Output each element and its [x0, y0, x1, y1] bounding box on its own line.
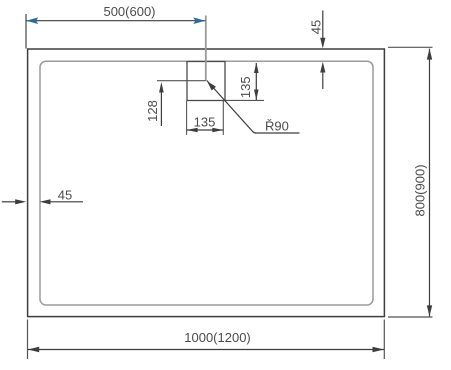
- dimension line 500(600): [26, 20, 206, 22]
- svg-text:Ř90: Ř90: [265, 119, 289, 134]
- svg-text:135: 135: [238, 76, 253, 98]
- blue arrow left of 500(600): [26, 17, 38, 24]
- extension line below drain square left: [186, 101, 188, 135]
- dimension line 135 horizontal: [187, 129, 224, 131]
- left 45 dimension outside segment with right arrow: [2, 201, 17, 203]
- drain centerline vertical (extension of 500 dim): [205, 16, 207, 81]
- extension line bottom left for 1000(1200): [27, 320, 29, 360]
- inner tray rim: [40, 61, 373, 305]
- dimension line 135 vertical: [255, 63, 257, 100]
- left 45 dimension inside segment with left arrow: [50, 201, 83, 203]
- extension line bottom right for 800(900): [388, 316, 433, 318]
- dimension line 800(900): [429, 49, 431, 317]
- extension line top right for 800(900): [388, 46, 433, 48]
- svg-text:135: 135: [194, 115, 216, 130]
- drain centerline horizontal: [157, 80, 206, 82]
- extension line left of 500(600): [25, 14, 27, 49]
- R90 leader horizontal: [255, 132, 300, 134]
- dimension line 1000(1200): [28, 349, 384, 351]
- extension line bottom right for 1000(1200): [383, 320, 385, 360]
- svg-text:1000(1200): 1000(1200): [184, 330, 251, 345]
- blue arrow right of 500(600): [193, 17, 205, 24]
- svg-text:500(600): 500(600): [103, 4, 155, 19]
- 45 top dimension lower segment with up arrow: [322, 71, 324, 89]
- extension line right of drain square bottom: [225, 99, 264, 101]
- R90 leader diagonal: [207, 81, 256, 134]
- svg-text:45: 45: [309, 20, 324, 34]
- R90 leader arrowhead at drain centre: [207, 81, 216, 90]
- extension line below drain square right: [222, 101, 224, 135]
- 128 dimension line with up arrow: [160, 90, 162, 126]
- drain square: [187, 62, 225, 101]
- svg-text:800(900): 800(900): [413, 164, 428, 216]
- svg-text:128: 128: [145, 100, 160, 122]
- svg-text:45: 45: [58, 187, 72, 202]
- 45 top dimension upper segment with down arrow: [322, 11, 324, 41]
- outer tray outline: [28, 49, 385, 317]
